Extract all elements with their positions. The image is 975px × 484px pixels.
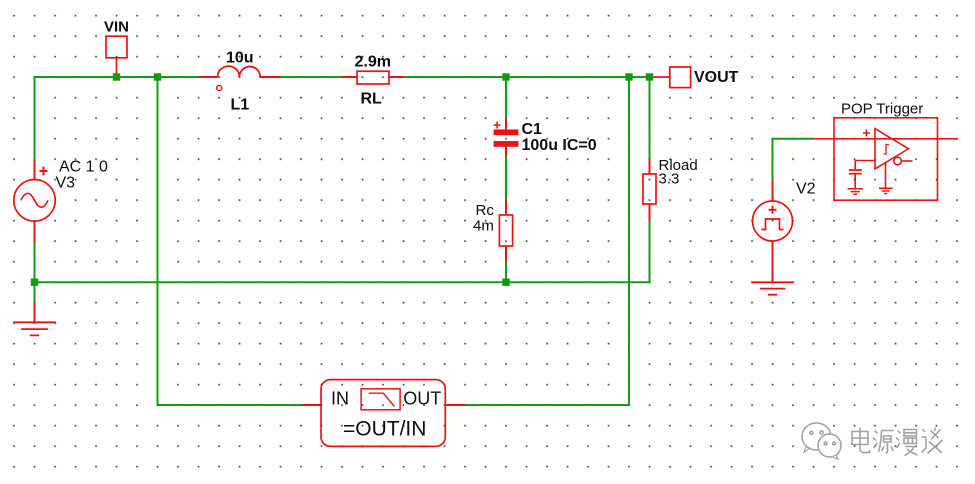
watermark wechat icon bbox=[802, 423, 841, 459]
svg-text:VIN: VIN bbox=[104, 18, 129, 35]
wire: V3 left vertical green bbox=[34, 76, 36, 160]
svg-text:VOUT: VOUT bbox=[694, 69, 739, 86]
capacitor POP IC bbox=[849, 161, 875, 189]
wire: C1 branch green parts x=506 bbox=[505, 77, 507, 282]
ground POP comparator bbox=[879, 163, 893, 194]
source V2 bbox=[753, 181, 793, 283]
svg-text:Rc: Rc bbox=[476, 202, 495, 219]
svg-text:10u: 10u bbox=[226, 50, 254, 67]
watermark text 电源漫谈 bbox=[852, 428, 943, 456]
resistor Rload bbox=[643, 159, 656, 221]
resistor RL bbox=[342, 71, 404, 84]
svg-text:V3: V3 bbox=[56, 175, 76, 192]
svg-text:2.9m: 2.9m bbox=[355, 54, 391, 71]
wire: feedback vertical x=629 bbox=[628, 77, 630, 406]
port VOUT box bbox=[652, 67, 691, 88]
svg-text:OUT: OUT bbox=[403, 388, 441, 408]
inductor L1 bbox=[199, 66, 281, 91]
node junction sense tap bbox=[154, 73, 161, 80]
POP Trigger box bbox=[834, 118, 938, 200]
comparator U1 bbox=[863, 129, 913, 169]
node junction below VIN bbox=[113, 73, 120, 80]
node junction C1 top bbox=[502, 73, 509, 80]
node junction feedback top bbox=[625, 73, 632, 80]
wire: Rload vertical green parts x=649.5 bbox=[649, 77, 651, 283]
ground V2 bbox=[752, 282, 794, 294]
block bode probe IN/OUT bbox=[301, 380, 465, 447]
wire: sense vertical x=157.5 bbox=[157, 77, 159, 405]
svg-text:V2: V2 bbox=[796, 181, 816, 198]
wire: bottom rail y=282 bbox=[35, 281, 650, 283]
wire: main top rail green segments y=77 bbox=[35, 76, 652, 78]
source V3 bbox=[14, 160, 56, 242]
wire: bottom block horizontal y=405 bbox=[158, 404, 630, 406]
svg-text:AC 1 0: AC 1 0 bbox=[59, 159, 108, 176]
ground POP cap bbox=[848, 189, 863, 195]
svg-text:3.3: 3.3 bbox=[659, 171, 680, 188]
svg-text:RL: RL bbox=[361, 91, 383, 108]
svg-text:100u IC=0: 100u IC=0 bbox=[522, 137, 597, 154]
node junction V3 ground bbox=[31, 279, 38, 286]
ground V3 bbox=[13, 303, 56, 336]
node junction Rc bottom bbox=[502, 279, 509, 286]
wire: V3 lower green to ground junction bbox=[34, 242, 36, 303]
node junction VOUT bbox=[646, 73, 653, 80]
resistor Rc bbox=[499, 200, 512, 262]
svg-text:IN: IN bbox=[331, 388, 349, 408]
capacitor C1 bbox=[494, 118, 519, 156]
wire: V2 branch green bbox=[772, 138, 814, 181]
svg-text:4m: 4m bbox=[473, 218, 494, 235]
svg-text:POP Trigger: POP Trigger bbox=[841, 101, 923, 118]
svg-text:=OUT/IN: =OUT/IN bbox=[343, 417, 426, 440]
wire: POP input through line red bbox=[814, 138, 958, 140]
svg-text:C1: C1 bbox=[522, 121, 543, 138]
port VIN box bbox=[106, 36, 127, 74]
svg-text:L1: L1 bbox=[231, 97, 250, 114]
